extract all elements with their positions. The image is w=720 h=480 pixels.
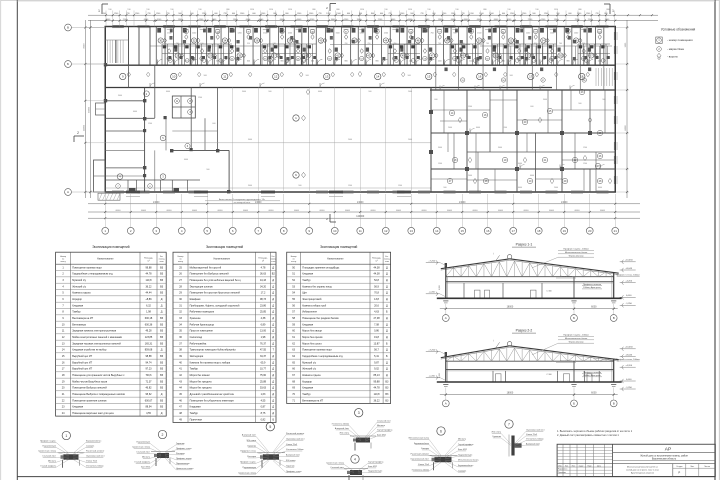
svg-text:0,87: 0,87 [261, 406, 266, 409]
svg-text:Экспликация помещений: Экспликация помещений [92, 245, 130, 249]
svg-text:750: 750 [409, 33, 412, 35]
svg-text:+8,045: +8,045 [625, 268, 633, 270]
svg-text:Кладовая отработки не выбор: Кладовая отработки не выбор [72, 349, 107, 352]
svg-text:510: 510 [198, 9, 201, 11]
svg-text:Наименование: Наименование [213, 258, 230, 261]
svg-text:0,82: 0,82 [261, 418, 266, 421]
svg-text:6: 6 [440, 429, 442, 433]
svg-text:Стальной лист: Стальной лист [136, 451, 150, 454]
svg-text:+10,450: +10,450 [625, 347, 634, 349]
svg-text:6000: 6000 [184, 159, 188, 161]
svg-text:Женский с/у: Женский с/у [72, 285, 87, 288]
svg-text:1510: 1510 [288, 9, 292, 11]
svg-text:Профлист стены: Профлист стены [176, 447, 192, 450]
svg-text:6,000: 6,000 [439, 285, 441, 290]
svg-text:-1,200: -1,200 [429, 375, 436, 377]
svg-text:ения: ения [160, 261, 164, 263]
svg-text:Лист: Лист [572, 465, 576, 467]
svg-text:15: 15 [427, 75, 431, 79]
detail node 3 core [350, 436, 376, 451]
svg-text:Б: Б [573, 402, 575, 406]
svg-text:1200: 1200 [501, 33, 505, 35]
svg-text:5,41: 5,41 [374, 355, 379, 358]
svg-text:Разрез 2-2: Разрез 2-2 [516, 329, 533, 333]
detail node 2 bubble [158, 430, 166, 438]
svg-text:510: 510 [108, 9, 111, 11]
svg-text:44,78: 44,78 [145, 273, 152, 276]
svg-text:880: 880 [336, 9, 339, 11]
svg-text:Площадь,: Площадь, [144, 258, 154, 260]
svg-text:Мороз без придела: Мороз без придела [190, 387, 213, 390]
svg-text:плану: плану [178, 261, 183, 263]
section 2-2 bottom dimension [440, 388, 618, 398]
svg-text:25,85: 25,85 [260, 311, 267, 314]
svg-text:17: 17 [512, 229, 516, 233]
svg-text:№док: №док [579, 464, 584, 467]
svg-text:1200: 1200 [583, 163, 587, 165]
svg-text:Гардеробная с непродоваемым от: Гардеробная с непродоваемым отд. [302, 355, 343, 358]
svg-text:Расчетный элемент: Расчетный элемент [286, 432, 304, 435]
svg-text:Коридор: Коридор [302, 380, 312, 383]
svg-text:11: 11 [223, 75, 226, 79]
hall room circle 1 [293, 115, 306, 121]
svg-text:2400: 2400 [554, 187, 558, 189]
svg-text:75,60: 75,60 [260, 374, 267, 377]
svg-text:Кладовая: Кладовая [302, 273, 314, 276]
svg-text:600: 600 [212, 123, 215, 125]
svg-text:900: 900 [602, 99, 605, 101]
svg-text:Ферма (балка): Ферма (балка) [569, 340, 584, 343]
svg-text:7,08: 7,08 [374, 323, 379, 326]
svg-text:1,98: 1,98 [146, 311, 151, 314]
svg-text:56,7: 56,7 [374, 349, 379, 352]
svg-text:53,63: 53,63 [260, 387, 267, 390]
section mark 1-1 top left [98, 4, 108, 14]
svg-text:900: 900 [206, 169, 209, 171]
svg-text:6000: 6000 [598, 187, 602, 189]
svg-text:+7,200: +7,200 [428, 260, 436, 262]
svg-text:1200: 1200 [360, 33, 364, 35]
svg-text:Помещение для хранения чистов: Помещение для хранения чистов Вырубных с [72, 374, 125, 377]
svg-text:4,55: 4,55 [146, 412, 151, 415]
svg-text:6000: 6000 [133, 111, 137, 113]
svg-text:1500: 1500 [468, 106, 472, 108]
svg-text:6000: 6000 [591, 391, 597, 394]
section 2-2 truss [446, 348, 614, 361]
svg-text:Кол: Кол [565, 465, 568, 467]
svg-text:1200: 1200 [550, 33, 554, 35]
explication table 2 [173, 245, 277, 422]
svg-text:6000: 6000 [447, 210, 453, 212]
svg-text:- марка Окна: - марка Окна [667, 47, 684, 51]
svg-text:6000: 6000 [166, 91, 170, 93]
svg-text:Стадия: Стадия [676, 466, 682, 468]
svg-text:Р: Р [678, 471, 680, 475]
section 1-1 elevation marks left [426, 260, 446, 297]
svg-text:99,88: 99,88 [373, 380, 380, 383]
svg-text:5: 5 [269, 425, 271, 429]
svg-text:110,8: 110,8 [146, 279, 153, 282]
svg-text:13: 13 [325, 75, 329, 79]
window marks on north wall [112, 25, 609, 28]
svg-text:1500: 1500 [438, 163, 442, 165]
svg-text:1100: 1100 [469, 61, 473, 63]
svg-text:13,87: 13,87 [373, 342, 380, 345]
svg-text:Помещение Выброса линолей: Помещение Выброса линолей [72, 387, 107, 390]
svg-text:33000: 33000 [88, 106, 90, 113]
svg-text:510: 510 [146, 9, 149, 11]
svg-text:600: 600 [530, 106, 533, 108]
grid bubbles bottom row 1-21 [102, 220, 619, 235]
svg-text:49,28: 49,28 [145, 330, 152, 333]
svg-text:14: 14 [376, 75, 380, 79]
section 2-2 roof callout [532, 334, 594, 355]
svg-text:34,37: 34,37 [260, 355, 267, 358]
svg-text:м²: м² [376, 260, 378, 263]
svg-text:1500: 1500 [598, 33, 602, 35]
svg-text:Помещение без Выброса линолей: Помещение без Выброса линолей [190, 273, 230, 276]
svg-text:Многоэтажный монолитный 16 эт.: Многоэтажный монолитный 16 эт. [627, 465, 659, 468]
svg-text:6000: 6000 [498, 210, 504, 212]
svg-text:14: 14 [435, 229, 439, 233]
svg-text:Прачечная: Прачечная [190, 418, 203, 421]
svg-text:Мойка варочной без цистей: Мойка варочной без цистей [190, 266, 222, 269]
svg-text:12: 12 [384, 229, 388, 233]
svg-text:760: 760 [486, 43, 489, 45]
svg-text:Профлист стены: Профлист стены [286, 470, 302, 473]
svg-text:4,38: 4,38 [261, 317, 266, 320]
detail node 1 bubble [62, 431, 70, 439]
svg-text:1200: 1200 [148, 123, 152, 125]
svg-text:19,8: 19,8 [374, 336, 379, 339]
svg-text:Подп: Подп [587, 465, 591, 467]
svg-text:900: 900 [443, 187, 446, 189]
svg-text:2400: 2400 [468, 175, 472, 177]
svg-text:1100: 1100 [438, 61, 442, 63]
svg-text:859,68: 859,68 [145, 349, 153, 352]
legend [656, 28, 696, 61]
left block interior walls [105, 65, 229, 192]
svg-text:Площадь,: Площадь, [372, 258, 382, 260]
svg-text:Профлист оцинк.: Профлист оцинк. [240, 461, 256, 464]
svg-text:750: 750 [430, 33, 433, 35]
svg-text:А: А [445, 402, 447, 406]
svg-text:4,55: 4,55 [261, 399, 266, 402]
svg-text:1500: 1500 [477, 33, 481, 35]
ramp hatch bottom left [98, 193, 120, 200]
hall room circle 6 [293, 172, 306, 178]
svg-text:2400: 2400 [408, 139, 412, 141]
svg-text:Мороз без придела: Мороз без придела [190, 380, 213, 383]
svg-text:1200: 1200 [238, 33, 242, 35]
top strip partition walls and cells [105, 26, 612, 65]
svg-text:Мужской с/у: Мужской с/у [302, 361, 317, 364]
column grid lines across hall [105, 88, 431, 193]
svg-text:Помещение приема пищи: Помещение приема пищи [72, 266, 102, 269]
svg-text:Профлист оцинк., 100мм: Профлист оцинк., 100мм [563, 334, 589, 337]
svg-text:Стальной лист: Стальной лист [42, 455, 56, 458]
svg-text:46,82: 46,82 [145, 387, 152, 390]
detail node 3 callouts [332, 420, 393, 442]
svg-text:6000: 6000 [473, 210, 479, 212]
svg-text:В: В [613, 402, 615, 406]
top strip second row right part [436, 65, 604, 90]
svg-text:Храчение: Храчение [190, 317, 202, 320]
svg-text:52,8: 52,8 [374, 279, 379, 282]
svg-text:44,44: 44,44 [145, 292, 152, 295]
svg-text:165,31: 165,31 [145, 342, 153, 345]
svg-text:880: 880 [483, 9, 486, 11]
svg-text:Комната избора труб: Комната избора труб [302, 304, 327, 307]
right dimension line [616, 20, 629, 198]
svg-text:600,36: 600,36 [145, 323, 153, 326]
svg-text:Комната без охраны пищу: Комната без охраны пищу [302, 285, 332, 288]
section 1-1 walls [445, 263, 614, 298]
svg-text:12: 12 [274, 75, 278, 79]
svg-text:510: 510 [384, 9, 387, 11]
svg-text:Профлист оцинк., 100мм: Профлист оцинк., 100мм [563, 248, 589, 251]
svg-text:6,89: 6,89 [261, 323, 266, 326]
svg-text:Анкерный болт: Анкерный болт [335, 427, 349, 430]
svg-text:100мм, Армстронг: 100мм, Армстронг [583, 286, 601, 289]
title block frame [557, 444, 715, 476]
svg-text:1500: 1500 [503, 127, 507, 129]
right wall window marks [614, 32, 617, 184]
section 1-1 roof callout [532, 248, 594, 268]
section 2-2 elevation marks left [426, 349, 446, 380]
svg-text:Шкафная: Шкафная [190, 298, 201, 301]
top dimension lines [88, 9, 658, 27]
svg-text:17,2: 17,2 [261, 292, 266, 295]
svg-text:700,6: 700,6 [145, 374, 152, 377]
svg-text:6000: 6000 [167, 210, 173, 212]
svg-text:Наименование: Наименование [327, 258, 344, 261]
section 2-2 ceiling line [446, 370, 614, 371]
svg-text:Мороз без сухого: Мороз без сухого [302, 342, 322, 345]
svg-text:Мороз без комнат: Мороз без комнат [190, 374, 211, 377]
svg-text:24000: 24000 [561, 202, 568, 204]
svg-text:1200: 1200 [288, 33, 292, 35]
detail node 6 bubble [437, 427, 445, 435]
svg-text:6,32: 6,32 [146, 304, 151, 307]
svg-text:Стальной лист: Стальной лист [330, 466, 344, 469]
svg-text:- ворота: - ворота [667, 54, 678, 58]
svg-text:760: 760 [367, 43, 370, 45]
svg-text:36,22: 36,22 [145, 285, 152, 288]
svg-text:1,98: 1,98 [261, 336, 266, 339]
svg-text:24000: 24000 [459, 202, 466, 204]
svg-text:Помещение Выброса с поврежденн: Помещение Выброса с поврежденных шкипов [72, 393, 125, 396]
section mark 2-2 left [74, 131, 84, 142]
svg-text:Кладовая: Кладовая [190, 406, 202, 409]
svg-text:Комната отдыха: Комната отдыха [72, 292, 91, 295]
section 2-2 elevation marks right [620, 347, 636, 392]
section 1-1 axis bubbles [442, 311, 617, 321]
section 2-2 ground line [437, 382, 622, 387]
svg-text:Вырубной цех ИТ: Вырубной цех ИТ [72, 368, 92, 371]
section 1-1 roof [441, 252, 619, 274]
svg-text:1200: 1200 [216, 33, 220, 35]
svg-text:13: 13 [410, 229, 414, 233]
svg-text:1200: 1200 [198, 97, 202, 99]
svg-text:Мойка электролизных панелей с: Мойка электролизных панелей с машинами [72, 336, 122, 339]
detail node 7 bubble [505, 420, 513, 428]
svg-text:2: 2 [162, 433, 164, 437]
exterior porch left [96, 103, 106, 115]
svg-text:6000: 6000 [116, 210, 122, 212]
svg-text:600: 600 [434, 99, 437, 101]
svg-text:70,8: 70,8 [374, 292, 379, 295]
svg-text:3000: 3000 [498, 147, 502, 149]
svg-text:ения: ения [385, 261, 389, 263]
svg-text:Тамбур: Тамбур [190, 412, 199, 415]
svg-text:Стальной лист: Стальной лист [377, 420, 391, 423]
svg-text:510: 510 [507, 9, 510, 11]
svg-text:760: 760 [438, 43, 441, 45]
svg-text:18: 18 [537, 229, 541, 233]
svg-text:4,63: 4,63 [374, 311, 379, 314]
svg-text:6000: 6000 [600, 210, 606, 212]
svg-text:Профлист стены, 100мм: Профлист стены, 100мм [616, 358, 640, 361]
svg-text:6,000: 6,000 [439, 373, 441, 378]
svg-text:7: 7 [508, 422, 510, 426]
bottom row small rooms left [105, 180, 200, 192]
svg-text:3000: 3000 [543, 99, 547, 101]
section 1-1 elevation marks right [620, 260, 636, 308]
svg-text:Вырубной цех ИТ: Вырубной цех ИТ [72, 361, 92, 364]
svg-text:Гардеробная с непродоваемым от: Гардеробная с непродоваемым отд. [72, 273, 113, 276]
detail node 1 callouts [39, 440, 105, 468]
svg-text:С 300: С 300 [546, 290, 552, 292]
svg-text:6000: 6000 [476, 127, 480, 129]
svg-text:1200: 1200 [384, 33, 388, 35]
svg-text:1: 1 [612, 9, 614, 13]
svg-text:44,38: 44,38 [373, 273, 380, 276]
svg-text:24000: 24000 [255, 202, 262, 204]
section 1-1 bottom dimension [440, 304, 618, 311]
svg-text:880: 880 [566, 61, 569, 63]
section mark 2-2 bottom [326, 214, 336, 222]
svg-text:6000: 6000 [141, 210, 147, 212]
svg-text:Приборщики, буфеты, складской: Приборщики, буфеты, складской отдельной [190, 304, 240, 307]
svg-text:+7,200: +7,200 [428, 349, 436, 351]
svg-text:11: 11 [359, 229, 362, 233]
svg-text:плану: плану [291, 261, 296, 263]
svg-text:1500: 1500 [348, 185, 352, 187]
section mark 2-2 top [326, 4, 336, 12]
svg-text:510: 510 [247, 43, 250, 45]
svg-text:Салосклад: Салосклад [190, 336, 203, 339]
svg-text:600,18: 600,18 [145, 317, 153, 320]
svg-text:Мороз без овощи: Мороз без овощи [302, 330, 322, 333]
section 2-2 walls [445, 352, 614, 382]
svg-text:760: 760 [559, 43, 562, 45]
svg-text:А: А [445, 316, 447, 320]
section 2-2 title [512, 329, 536, 334]
svg-text:880: 880 [606, 9, 609, 11]
svg-text:3: 3 [358, 411, 360, 415]
svg-text:Оцинкованный лист: Оцинкованный лист [410, 458, 429, 461]
svg-text:Тамбур: Тамбур [302, 279, 311, 282]
title block left grid [557, 444, 613, 476]
svg-text:510: 510 [535, 9, 538, 11]
svg-text:600: 600 [247, 61, 250, 63]
svg-text:Женский с/у: Женский с/у [302, 368, 317, 371]
svg-text:880: 880 [312, 9, 315, 11]
svg-text:Б: Б [573, 316, 575, 320]
svg-text:1500: 1500 [167, 33, 171, 35]
detail node 3 bubble [355, 409, 363, 417]
svg-text:510: 510 [319, 43, 322, 45]
svg-text:4: 4 [354, 457, 356, 461]
svg-text:Ферма (балка): Ферма (балка) [569, 254, 584, 257]
svg-text:6000: 6000 [518, 187, 522, 189]
svg-text:510: 510 [127, 9, 130, 11]
section 1-1 ceiling line [446, 282, 614, 283]
svg-text:Мойка чистов Вырубных косов: Мойка чистов Вырубных косов [72, 380, 108, 383]
svg-text:Помещение приема пищи: Помещение приема пищи [302, 349, 332, 352]
svg-text:98,88: 98,88 [145, 355, 152, 358]
svg-text:65,9: 65,9 [261, 361, 266, 364]
svg-text:Разработал: Разработал [558, 469, 567, 471]
svg-text:Разрез 1-1: Разрез 1-1 [516, 243, 533, 247]
svg-text:76,37: 76,37 [260, 342, 267, 345]
svg-text:6000: 6000 [218, 210, 224, 212]
svg-text:98,73: 98,73 [260, 298, 267, 301]
svg-text:21: 21 [614, 229, 618, 233]
svg-text:1200: 1200 [526, 33, 530, 35]
svg-text:м²: м² [147, 260, 149, 263]
explication table 1 [56, 245, 167, 416]
svg-text:Б: Б [67, 62, 69, 66]
svg-text:110,8: 110,8 [374, 393, 381, 396]
svg-text:Избирателен: Избирателен [302, 311, 317, 314]
svg-text:1500: 1500 [398, 185, 402, 187]
svg-text:Венткамера на ИТ: Венткамера на ИТ [302, 399, 323, 402]
svg-text:+4,200: +4,200 [625, 365, 633, 367]
svg-text:Дата: Дата [597, 465, 601, 467]
svg-text:27,08: 27,08 [373, 317, 380, 320]
svg-text:99,88: 99,88 [145, 266, 152, 269]
section 1-1 interior partitions [464, 277, 574, 299]
detail node 6 callouts [409, 438, 480, 473]
svg-text:6000: 6000 [422, 210, 428, 212]
svg-text:1100: 1100 [598, 61, 602, 63]
bottom dimension lines [88, 194, 640, 220]
svg-text:2: 2 [77, 131, 79, 135]
svg-text:44,78: 44,78 [373, 387, 380, 390]
svg-text:25,88: 25,88 [260, 380, 267, 383]
right block interior walls [431, 88, 616, 193]
detail node 4 callouts [327, 461, 384, 474]
svg-text:6000: 6000 [192, 210, 198, 212]
section 1-1 title [512, 243, 536, 248]
south wall dock doors [126, 191, 411, 197]
svg-text:24000: 24000 [153, 202, 160, 204]
svg-text:Профлист стены, 100мм: Профлист стены, 100мм [616, 274, 640, 277]
svg-text:Оцинкованный лист: Оцинкованный лист [526, 429, 545, 432]
svg-text:880: 880 [226, 9, 229, 11]
svg-text:120000: 120000 [356, 215, 365, 218]
svg-text:2. Данный лист рассматривать с: 2. Данный лист рассматривать совместно с… [557, 434, 619, 437]
section 2-2 axis bubbles [442, 397, 617, 407]
svg-text:0,000: 0,000 [626, 295, 632, 297]
svg-text:Гнутый профиль: Гнутый профиль [377, 429, 392, 432]
svg-text:+8,045: +8,045 [625, 354, 633, 356]
section 1-1 inner callouts [439, 274, 640, 293]
svg-text:Помещение хранения шлипов: Помещение хранения шлипов [72, 399, 107, 402]
svg-text:1,63: 1,63 [261, 393, 266, 396]
